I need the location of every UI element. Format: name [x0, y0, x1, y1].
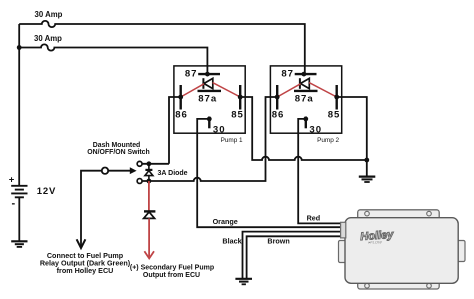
node: feed junction on battery wire	[17, 45, 22, 50]
svg-text:Orange: Orange	[213, 217, 238, 226]
svg-text:87: 87	[281, 68, 294, 79]
wire: fused feed 1 to relay K2 pin 87	[19, 21, 305, 74]
wire: ECU Brown to ground	[247, 236, 342, 278]
svg-text:87a: 87a	[295, 94, 314, 105]
relay K1 box	[174, 66, 245, 133]
wire: ECU Black to ground	[243, 232, 343, 279]
relay K2 coil wire right (red)	[309, 83, 337, 97]
relay K1 pin 30 bar	[208, 117, 210, 129]
relay K2 pin 87 contact bar	[295, 73, 317, 75]
relay K2 box	[270, 66, 341, 133]
switch SW1 pole arrow	[130, 167, 137, 174]
svg-text:Black: Black	[222, 236, 241, 245]
relay K1 internal diode (armature symbol)	[202, 78, 204, 89]
svg-text:86: 86	[272, 110, 285, 121]
ground: ECU black/brown	[235, 279, 252, 285]
wire: secondary fuel pump output (red) upper	[148, 181, 150, 211]
node: ground bus junction	[364, 158, 369, 163]
wire: battery - to ground	[18, 197, 20, 241]
arrow: to Holley ECU relay output	[77, 239, 86, 248]
Holley ECU bottom mounting flange	[358, 279, 440, 289]
wire: switch common from ECU relay output	[81, 171, 102, 247]
node: pin 87 junction	[302, 72, 307, 77]
svg-text:Output from ECU: Output from ECU	[143, 272, 200, 279]
node: diode D1 bottom junction	[147, 179, 152, 184]
node: pin 85 junction	[238, 95, 243, 100]
svg-text:30 Amp: 30 Amp	[34, 34, 62, 43]
svg-text:87: 87	[185, 68, 198, 79]
wire: switch terminal 2 to relay K2 pin 86 (hop over pump1 wire)	[142, 97, 277, 181]
svg-text:3A Diode: 3A Diode	[158, 170, 188, 177]
svg-text:Pump 1: Pump 1	[221, 137, 243, 144]
node: diode D1 top junction	[147, 161, 152, 166]
ground: battery	[11, 241, 27, 247]
node: pin 86 junction	[275, 95, 280, 100]
battery BT1 12V plates	[11, 186, 27, 198]
Holley ECU right tab	[456, 241, 465, 262]
svg-text:87a: 87a	[198, 94, 217, 105]
wire: relay K2 pin 85 to ground	[337, 97, 367, 177]
switch SW1 terminal 2 (down position)	[137, 179, 142, 184]
svg-text:(+) Secondary Fuel Pump: (+) Secondary Fuel Pump	[130, 265, 214, 272]
relay K1 pin 87 contact bar	[198, 73, 220, 75]
Holley ECU top mounting flange	[358, 210, 440, 220]
relay K1 pin 87a contact bar	[198, 90, 222, 92]
svg-text:30: 30	[213, 125, 226, 136]
svg-text:-: -	[12, 198, 16, 210]
wire: fused feed 2 to relay K1 pin 87	[19, 44, 207, 74]
svg-text:85: 85	[328, 110, 341, 121]
wire: switch pole wire	[108, 170, 130, 172]
node: pin 85 junction	[334, 95, 339, 100]
relay K2 pin 86 bar	[276, 85, 278, 110]
diode D2 (in red wire)	[144, 210, 155, 212]
relay K1 coil wire left (red)	[181, 84, 204, 97]
svg-text:Pump 2: Pump 2	[317, 137, 339, 144]
wire: switch terminal 1 to relay K1 pin 86	[142, 97, 180, 164]
node: inline connector circle	[102, 168, 108, 174]
diode D1 3A (across switch terminals)	[145, 169, 152, 171]
svg-text:▸FLOW: ▸FLOW	[368, 240, 383, 245]
svg-text:+: +	[9, 174, 15, 185]
Holley ECU main body	[345, 218, 458, 284]
svg-text:ON/OFF/ON Switch: ON/OFF/ON Switch	[87, 149, 149, 156]
svg-text:Brown: Brown	[267, 236, 289, 245]
relay K2 pin 87a contact bar	[294, 90, 318, 92]
relay K1 pin 85 bar	[239, 85, 241, 110]
relay K2 coil wire left (red)	[277, 84, 300, 97]
relay K1 coil wire right (red)	[213, 83, 241, 97]
svg-text:86: 86	[175, 110, 188, 121]
node: pin 87 junction	[205, 72, 210, 77]
svg-text:Red: Red	[307, 213, 321, 222]
svg-text:from Holley ECU: from Holley ECU	[57, 266, 114, 275]
Holley ECU wire connector	[341, 222, 346, 238]
switch SW1 terminal 1 (up position)	[137, 161, 142, 166]
svg-text:12V: 12V	[37, 186, 56, 197]
svg-text:30: 30	[309, 125, 322, 136]
node: pin 30 junction	[207, 117, 212, 122]
ground: relay coils	[359, 177, 376, 182]
svg-text:Dash Mounted: Dash Mounted	[93, 142, 140, 149]
relay K2 pin 30 bar	[305, 117, 307, 129]
wire: battery + feed vertical	[18, 24, 20, 186]
wire: secondary fuel pump output (red) lower + arrow	[148, 218, 150, 256]
relay K2 pin 85 bar	[336, 85, 338, 110]
wire: relay K2 pin 30 to ECU (Red)	[298, 119, 342, 223]
relay K2 internal diode (armature symbol)	[299, 78, 301, 89]
svg-text:30 Amp: 30 Amp	[35, 10, 63, 19]
svg-text:85: 85	[231, 110, 244, 121]
node: pin 30 junction	[303, 117, 308, 122]
Holley ECU left lower tab	[339, 241, 347, 263]
wire: relay K1 pin 30 to ECU (Orange)	[197, 119, 342, 227]
relay K1 pin 86 bar	[179, 85, 181, 110]
wire: relay K1 pin 85 to ground bus (hops over two wires)	[240, 97, 367, 160]
node: pin 86 junction	[178, 95, 183, 100]
